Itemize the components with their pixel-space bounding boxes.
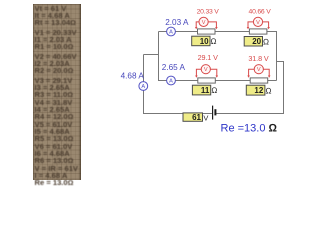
svg-text:V: V [202,20,206,26]
svg-text:10: 10 [200,37,209,46]
svg-text:12: 12 [254,86,263,95]
svg-text:Ω: Ω [263,37,269,46]
svg-text:20: 20 [252,37,261,46]
svg-text:A: A [169,79,173,85]
svg-text:4.68 A: 4.68 A [121,72,145,81]
svg-text:11: 11 [201,86,210,95]
svg-text:31.8 V: 31.8 V [248,54,268,63]
svg-text:A: A [141,84,145,90]
svg-text:V: V [256,20,260,26]
svg-text:Ω: Ω [211,86,217,95]
svg-text:20.33 V: 20.33 V [197,9,220,16]
svg-text:Ω: Ω [265,86,271,95]
svg-text:V: V [204,67,208,73]
svg-text:2.03 A: 2.03 A [165,18,189,27]
svg-text:Re =13.0 Ω: Re =13.0 Ω [221,123,278,135]
svg-text:61: 61 [192,113,201,122]
svg-text:40.66 V: 40.66 V [249,9,272,16]
svg-text:A: A [169,30,173,36]
svg-text:V: V [257,67,261,73]
svg-text:29.1 V: 29.1 V [198,53,218,62]
svg-text:V: V [203,113,208,122]
svg-text:2.65 A: 2.65 A [162,63,186,72]
svg-text:Ω: Ω [210,37,216,46]
